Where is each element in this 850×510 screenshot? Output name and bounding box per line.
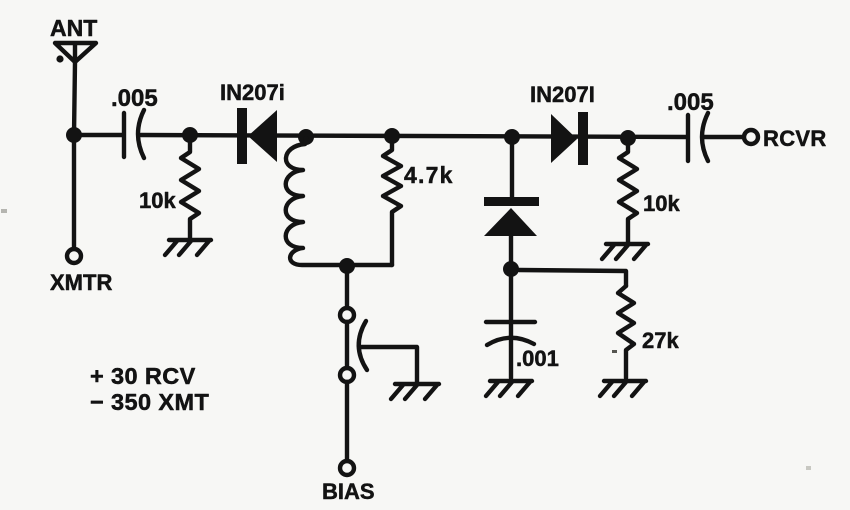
speck bottom right	[806, 466, 811, 470]
speck dot left of antenna	[56, 55, 63, 62]
speck left edge	[1, 209, 7, 213]
diode CR1 IN2071 triangle	[248, 110, 277, 162]
terminal XMTR circle	[67, 249, 81, 263]
capacitor C2 .005 curved plate	[702, 113, 708, 161]
terminal BIAS circle	[340, 461, 354, 475]
node junction B	[182, 127, 198, 143]
capacitor C5 .001 straight plate	[486, 320, 535, 324]
diode CR3 triangle (points up)	[484, 208, 537, 236]
feedthrough capacitor curved plate	[359, 321, 367, 370]
svg-text:27k: 27k	[642, 328, 679, 353]
svg-text:10k: 10k	[643, 191, 680, 216]
terminal RCVR circle	[744, 130, 758, 144]
svg-text:4.7k: 4.7k	[404, 162, 454, 188]
antenna symbol	[55, 43, 96, 62]
node junction H (10k right top)	[620, 130, 636, 146]
wire to XMTR	[72, 143, 76, 249]
diode CR2 IN2071 cathode bar	[578, 112, 588, 165]
ground G3 (under R3)	[602, 244, 648, 259]
node junction C (inductor top)	[298, 129, 314, 145]
diode CR2 IN2071 triangle	[551, 114, 577, 163]
svg-text:IN207I: IN207I	[530, 82, 595, 107]
wire varactor to junction G	[509, 236, 513, 262]
ground G5 (under 27k)	[600, 381, 646, 396]
svg-text:− 350 XMT: − 350 XMT	[90, 389, 209, 415]
svg-text:10k: 10k	[139, 188, 176, 213]
node junction F (varactor top)	[504, 129, 520, 145]
wire between feedthrough circles	[345, 322, 349, 368]
speck near 27k	[612, 350, 617, 353]
resistor R1 10k	[181, 143, 199, 238]
resistor R3 10k right	[619, 146, 637, 242]
wire junction G to 27k	[519, 270, 626, 286]
wire bias tap down	[345, 274, 349, 308]
inductor L1	[286, 138, 392, 265]
svg-text:RCVR: RCVR	[763, 126, 827, 151]
svg-text:ANT: ANT	[50, 15, 97, 41]
svg-text:XMTR: XMTR	[50, 270, 112, 295]
diode CR1 IN2071 cathode bar	[237, 108, 247, 164]
node junction A (ANT line)	[66, 127, 82, 143]
wire main horizontal left segment	[74, 133, 123, 137]
capacitor C2 .005 straight plate	[686, 115, 690, 161]
node junction G	[503, 261, 519, 277]
resistor R5 27k	[618, 286, 634, 378]
wire down to varactor	[510, 145, 514, 198]
capacitor C1 .005 curved plate	[138, 110, 144, 158]
wire main horizontal center segment	[141, 135, 687, 137]
capacitor C5 .001 curved plate	[487, 338, 534, 345]
wire main horizontal right segment	[704, 135, 745, 139]
wire feedthrough plate to ground	[360, 347, 417, 382]
diode CR3 cathode wide bar	[484, 197, 539, 206]
wire junction G down to C5	[509, 277, 513, 378]
ground G1 (under R1)	[165, 240, 211, 255]
node junction E (bias tap)	[339, 258, 355, 274]
svg-text:.005: .005	[111, 85, 158, 112]
svg-text:.001: .001	[516, 346, 559, 371]
svg-text:BIAS: BIAS	[322, 479, 375, 504]
svg-text:+ 30 RCV: + 30 RCV	[90, 363, 196, 389]
resistor R2 4.7k	[383, 144, 401, 265]
node junction D (4.7k top)	[384, 128, 400, 144]
wire antenna mast	[74, 62, 75, 135]
svg-text:IN207i: IN207i	[220, 80, 285, 105]
feedthrough capacitor upper terminal circle	[340, 308, 354, 322]
ground G4 (under C5)	[486, 381, 532, 396]
capacitor C1 .005 left plate	[122, 113, 126, 157]
wire down to BIAS	[345, 382, 349, 460]
feedthrough capacitor lower terminal circle	[340, 368, 354, 382]
ground G2 (feedthrough)	[391, 384, 439, 399]
